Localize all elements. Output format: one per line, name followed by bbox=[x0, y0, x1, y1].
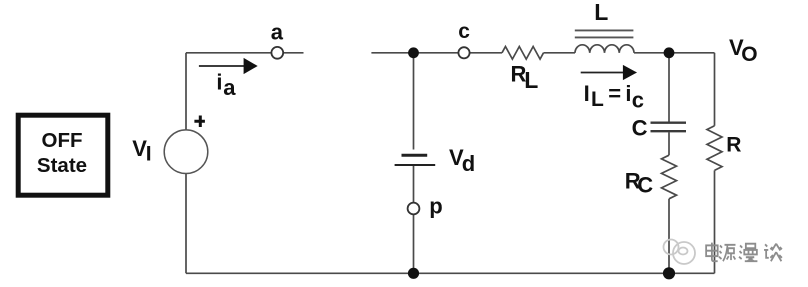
svg-text:C: C bbox=[632, 116, 648, 141]
svg-text:I: I bbox=[584, 81, 590, 106]
svg-text:I: I bbox=[146, 142, 152, 165]
svg-text:i: i bbox=[216, 70, 222, 95]
svg-text:L: L bbox=[594, 0, 608, 25]
svg-text:i: i bbox=[625, 81, 631, 106]
svg-text:L: L bbox=[524, 67, 538, 93]
svg-text:R: R bbox=[726, 134, 741, 157]
svg-text:OFF: OFF bbox=[42, 129, 83, 152]
svg-text:a: a bbox=[271, 19, 284, 44]
svg-text:State: State bbox=[37, 154, 87, 177]
svg-text:p: p bbox=[429, 193, 442, 218]
svg-text:d: d bbox=[462, 151, 475, 176]
svg-text:c: c bbox=[458, 20, 470, 43]
svg-text:O: O bbox=[741, 43, 757, 66]
svg-text:c: c bbox=[632, 87, 644, 112]
svg-text:C: C bbox=[637, 172, 653, 197]
svg-text:a: a bbox=[223, 75, 236, 100]
svg-text:=: = bbox=[608, 81, 621, 106]
svg-text:L: L bbox=[591, 88, 604, 111]
